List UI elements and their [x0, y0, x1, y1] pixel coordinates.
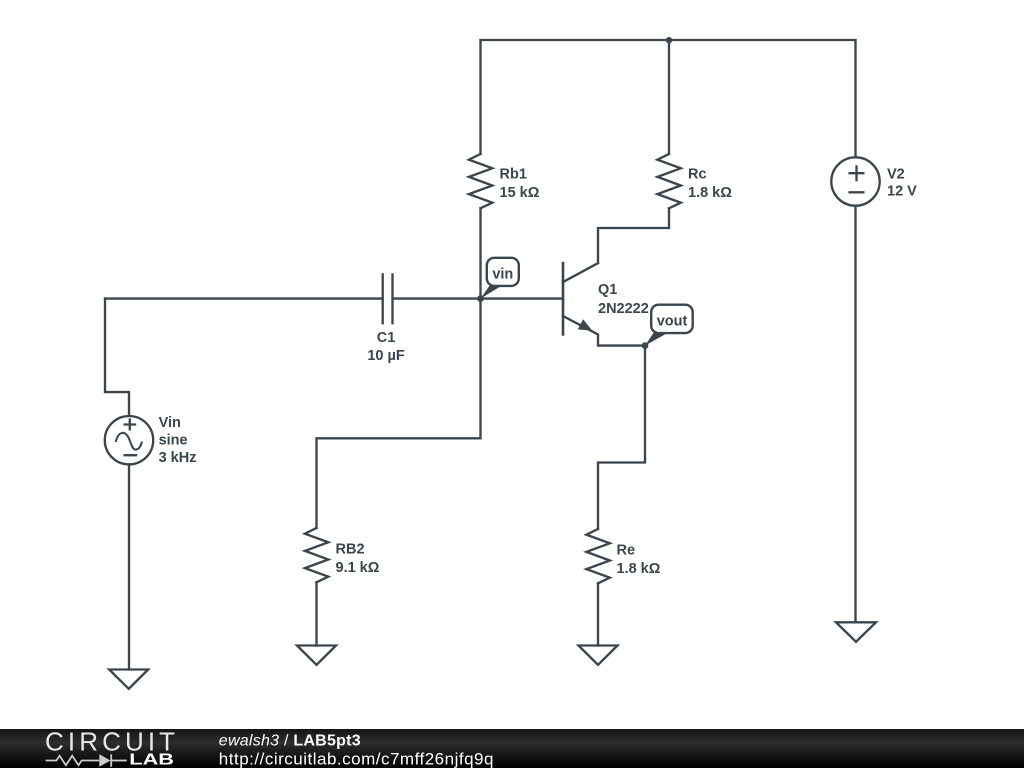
svg-text:2N2222: 2N2222: [598, 301, 649, 317]
svg-text:15 kΩ: 15 kΩ: [500, 185, 540, 201]
svg-text:RB2: RB2: [336, 542, 365, 558]
svg-text:3 kHz: 3 kHz: [159, 450, 197, 466]
svg-text:1.8 kΩ: 1.8 kΩ: [688, 185, 732, 201]
svg-text:9.1 kΩ: 9.1 kΩ: [336, 560, 380, 576]
svg-text:12 V: 12 V: [887, 184, 917, 200]
svg-text:sine: sine: [159, 433, 188, 449]
svg-text:vout: vout: [657, 313, 688, 329]
svg-text:Re: Re: [617, 543, 636, 559]
svg-text:ewalsh3 / LAB5pt3: ewalsh3 / LAB5pt3: [219, 732, 361, 749]
svg-text:1.8 kΩ: 1.8 kΩ: [617, 561, 661, 577]
svg-text:http://circuitlab.com/c7mff26n: http://circuitlab.com/c7mff26njfq9q: [219, 750, 494, 768]
svg-text:Rb1: Rb1: [500, 167, 527, 183]
svg-text:C1: C1: [377, 330, 396, 346]
svg-text:Vin: Vin: [159, 415, 181, 431]
svg-text:LAB: LAB: [129, 751, 174, 768]
svg-text:vin: vin: [492, 266, 513, 282]
svg-text:10 µF: 10 µF: [367, 348, 405, 364]
svg-text:V2: V2: [887, 166, 905, 182]
svg-text:Rc: Rc: [688, 167, 707, 183]
svg-text:Q1: Q1: [598, 282, 617, 298]
